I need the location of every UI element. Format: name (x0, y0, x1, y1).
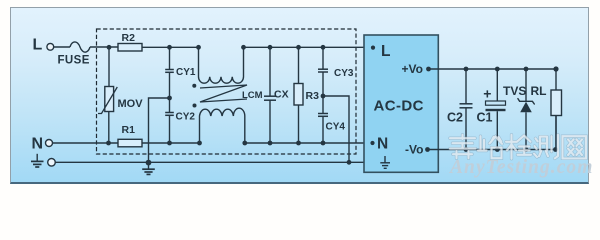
LCM core lines (200, 85, 247, 102)
svg-text:CY4: CY4 (326, 122, 346, 133)
junction dot N-R3 (296, 141, 301, 146)
junction dot LCM top-left pin (196, 45, 201, 50)
capacitor CY4 (318, 96, 328, 141)
junction dot L-R3 (296, 45, 301, 50)
junction dot N-CX (268, 141, 273, 146)
junction dot N-CY4 (321, 141, 326, 146)
node L terminal circle (47, 43, 54, 50)
junction dot N-MOV (106, 141, 111, 146)
ground chassis symbol in AC-DC (380, 156, 390, 168)
junction dot L-CY1 (167, 45, 172, 50)
capacitor CY2 (165, 98, 174, 141)
junction dot AC-DC L pin (371, 46, 375, 50)
wire earth rail (55, 161, 373, 163)
junction dot +Vo-C1 (495, 67, 500, 72)
wire +Vo rail (430, 69, 556, 90)
wire fuse to R2 (90, 46, 118, 48)
junction dot LCM top-right pin (241, 45, 246, 50)
svg-text:R3: R3 (306, 90, 320, 102)
inductor LCM bottom winding (200, 108, 245, 141)
AC-DC converter block U1 (364, 35, 438, 172)
svg-text:R1: R1 (122, 124, 136, 136)
svg-text:CX: CX (274, 89, 289, 101)
junction dot L-CX (268, 45, 273, 50)
svg-text:R2: R2 (122, 32, 136, 44)
junction dot AC-DC N pin (370, 141, 374, 145)
svg-text:CY1: CY1 (176, 67, 196, 78)
LCM top phase dot (192, 84, 196, 88)
svg-text:-Vo: -Vo (405, 143, 423, 157)
junction dot CY1-CY2 midpoint (167, 96, 172, 101)
LCM bottom phase dot (193, 104, 197, 108)
svg-text:+Vo: +Vo (402, 62, 423, 76)
junction dot +Vo-RL (553, 66, 558, 71)
wire CY34 midpoint to earth drop (323, 96, 349, 162)
wire LCM to AC-DC L input (244, 46, 374, 48)
svg-text:FUSE: FUSE (58, 55, 90, 67)
junction dot LCM bottom-left pin (197, 141, 202, 146)
ground central earth symbol (142, 162, 155, 174)
svg-text:N: N (32, 136, 44, 153)
varistor MOV (98, 49, 117, 141)
junction dot LCM bottom-right pin (242, 141, 247, 146)
diode TVS (518, 70, 534, 148)
svg-text:LCM: LCM (242, 90, 263, 101)
wire CY midpoint to earth drop (149, 98, 170, 162)
junction dot +Vo-C2 (464, 67, 469, 72)
capacitor CY3 (318, 49, 328, 94)
svg-text:L: L (381, 43, 390, 60)
junction dot +Vo-TVS (524, 67, 529, 72)
capacitor C1 polarized (486, 70, 506, 148)
resistor R1 (118, 139, 142, 147)
wire R1 to LCM bottom (142, 142, 200, 144)
ground earth terminal symbol left (31, 154, 44, 167)
capacitor CY1 (165, 49, 174, 96)
resistor RL (551, 90, 562, 148)
inductor LCM top winding (199, 49, 244, 83)
svg-text:CY2: CY2 (176, 111, 196, 122)
watermark pseudo-CJK 嘉峪检测网 (450, 135, 586, 159)
junction dot -Vo-TVS (524, 147, 529, 152)
junction dot earth end in AC-DC (370, 160, 374, 164)
junction dot CY3-CY4 midpoint (321, 94, 326, 99)
resistor R3 (294, 49, 303, 141)
junction dot L-MOV (107, 45, 112, 50)
junction dot -Vo-C2 (464, 147, 469, 152)
svg-text:+: + (483, 85, 491, 101)
junction dot N-CY2 (167, 141, 172, 146)
svg-text:AC-DC: AC-DC (374, 98, 424, 115)
watermark AnyTesting.com (450, 157, 593, 179)
junction dot -Vo-C1 (495, 147, 500, 152)
fuse FUSE (70, 42, 90, 52)
junction dot L-CY3 (321, 45, 326, 50)
junction dot earth-CY12 (146, 160, 152, 166)
wire L terminal to fuse (54, 46, 71, 48)
junction dot -Vo-RL (553, 147, 558, 152)
capacitor C2 (460, 70, 473, 148)
junction dot -Vo pin (425, 147, 430, 152)
svg-text:RL: RL (531, 84, 547, 98)
resistor R2 (118, 44, 142, 52)
wire N terminal to R1 (52, 142, 118, 144)
node earth terminal circle (48, 159, 56, 167)
svg-text:MOV: MOV (118, 98, 144, 110)
wire R2 to LCM (142, 46, 199, 48)
svg-text:TVS: TVS (503, 84, 526, 98)
node N terminal circle (46, 140, 53, 147)
svg-text:C1: C1 (477, 111, 493, 125)
wire -Vo rail (430, 116, 557, 150)
svg-text:CY3: CY3 (334, 68, 354, 79)
svg-text:N: N (377, 136, 388, 153)
junction dot +Vo pin (426, 67, 431, 72)
svg-text:C2: C2 (447, 111, 463, 125)
svg-text:L: L (33, 37, 43, 54)
junction dot earth-CY34 (347, 160, 352, 165)
dashed EMI filter box (97, 29, 357, 154)
capacitor CX (264, 49, 276, 141)
wire LCM bottom to AC-DC N input (245, 142, 373, 144)
